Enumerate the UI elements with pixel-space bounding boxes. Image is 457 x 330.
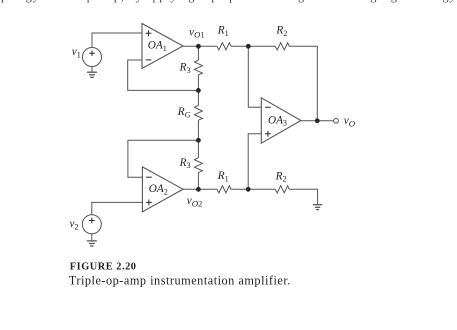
v1 plus sign <box>89 50 95 56</box>
node OA3 output <box>315 118 320 123</box>
wire OA2 output <box>183 188 217 190</box>
svg-text:R3: R3 <box>179 62 191 75</box>
svg-text:OA3: OA3 <box>268 114 287 127</box>
op-amp OA2 <box>142 167 183 212</box>
wire RG to lower R3 junction <box>197 120 199 158</box>
node top junction R1/R2 <box>246 44 251 49</box>
svg-text:R2: R2 <box>275 25 287 38</box>
ground at bottom right <box>313 205 322 210</box>
OA2 plus sign <box>146 200 152 206</box>
wire bottom junction to OA3 noninverting input <box>248 134 261 190</box>
ground of v1 <box>87 67 97 78</box>
svg-text:OA1: OA1 <box>148 40 167 53</box>
source v1 <box>83 48 102 67</box>
op-amp OA1 <box>142 24 183 69</box>
svg-text:R2: R2 <box>275 170 287 183</box>
resistor R1 (top) <box>217 43 231 50</box>
op-amp OA3 <box>261 98 301 143</box>
wire R1 to R2 bottom <box>231 188 275 190</box>
svg-text:OA2: OA2 <box>149 183 168 196</box>
wire R2 top to OA3 output (feedback) <box>289 46 317 121</box>
svg-text:v1: v1 <box>72 46 81 59</box>
svg-text:FIGURE 2.20: FIGURE 2.20 <box>70 261 137 272</box>
v2 plus sign <box>89 218 95 224</box>
wire R1 to R2 top <box>231 45 275 47</box>
svg-text:v2: v2 <box>70 218 79 231</box>
OA2 minus sign <box>146 176 152 178</box>
resistor R2 (top) <box>275 43 289 50</box>
svg-text:R3: R3 <box>179 157 191 170</box>
node RG/R3 junction <box>196 138 201 143</box>
OA3 plus sign <box>265 131 271 137</box>
resistor R2 (bottom) <box>275 186 289 193</box>
wire column vO1 to R3 <box>197 46 199 60</box>
svg-text:R1: R1 <box>217 170 229 183</box>
node R3/RG junction <box>196 88 201 93</box>
ground of v2 <box>87 234 97 246</box>
resistor R1 (bottom) <box>217 186 231 193</box>
OA3 minus sign <box>265 106 271 108</box>
OA1 minus sign <box>146 59 152 61</box>
wire R3 to RG junction <box>197 75 199 105</box>
resistor R3 (upper) <box>194 60 202 75</box>
resistor RG <box>194 105 202 120</box>
svg-text:Triple-op-amp instrumentation: Triple-op-amp instrumentation amplifier. <box>69 274 291 288</box>
OA1 plus sign <box>146 30 152 36</box>
node vO1 <box>196 44 201 49</box>
wire v1 to OA1 noninverting input <box>92 33 142 48</box>
svg-text:RG: RG <box>177 106 191 119</box>
wire top junction to OA3 inverting input <box>248 46 261 107</box>
output terminal circle <box>334 118 339 123</box>
node vO2 <box>196 187 201 192</box>
svg-text:vO: vO <box>344 115 356 128</box>
wire R2 bottom to ground <box>289 189 317 204</box>
wire lower R3 to vO2 node <box>197 173 199 190</box>
source v2 <box>82 215 101 234</box>
svg-text:R1: R1 <box>217 25 229 38</box>
wire OA1 inverting feedback <box>128 60 197 90</box>
wire OA2 inverting feedback <box>128 140 198 177</box>
wire OA3 output to terminal <box>301 120 334 122</box>
svg-text:vO1: vO1 <box>189 26 204 39</box>
wire OA1 output <box>183 45 217 47</box>
resistor R3 (lower) <box>194 158 202 173</box>
node bottom junction R1/R2 <box>246 187 251 192</box>
wire v2 to OA2 noninverting input <box>92 202 143 214</box>
cropped text line from page above <box>0 0 447 4</box>
svg-text:vO2: vO2 <box>187 195 202 208</box>
